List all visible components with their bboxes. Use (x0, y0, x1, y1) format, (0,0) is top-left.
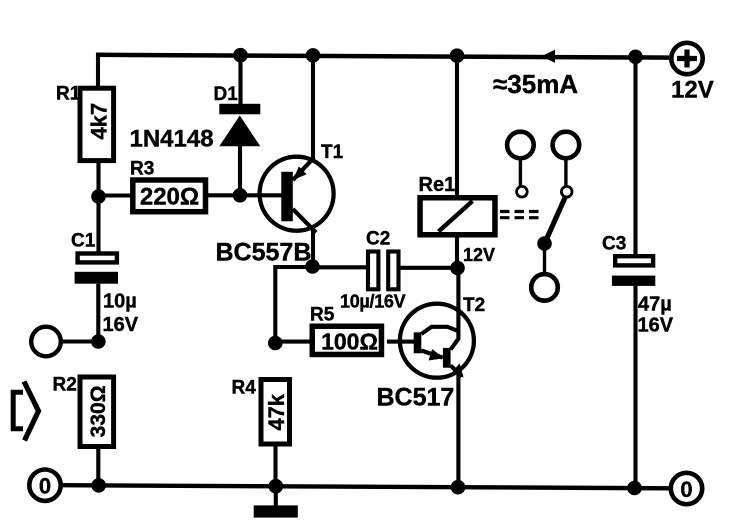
wire top supply rail (96, 55, 669, 58)
resistor R3 (133, 180, 206, 212)
junction bottom C3 (627, 481, 642, 496)
svg-text:0: 0 (680, 477, 692, 502)
svg-text:BC557B: BC557B (216, 239, 312, 267)
svg-text:16V: 16V (103, 314, 139, 336)
svg-text:12V: 12V (463, 245, 495, 265)
ground symbol stub (274, 486, 278, 506)
svg-text:Re1: Re1 (419, 174, 456, 196)
junction node T1 C2 branch (305, 259, 320, 274)
wire D1 to node (238, 146, 242, 195)
relay coil Re1 (420, 198, 495, 235)
svg-text:1N4148: 1N4148 (130, 126, 214, 153)
resistor R1 (80, 88, 114, 160)
junction bottom T2 (451, 480, 466, 495)
transistor T1 (247, 157, 334, 233)
svg-text:T2: T2 (463, 295, 485, 316)
svg-text:47k: 47k (264, 393, 289, 430)
input terminal circle (31, 327, 61, 357)
voltage source plus terminal 12V (671, 43, 702, 74)
svg-text:T1: T1 (321, 142, 344, 163)
junction bottom R4 (269, 479, 284, 494)
junction top rail C3 (628, 50, 643, 65)
junction node relay C2 T2 (450, 261, 465, 276)
junction top rail D1 (233, 48, 248, 63)
wire R2 bottom to rail (96, 449, 100, 485)
wire C3 bottom to rail (633, 286, 637, 488)
junction node R1 R3 C1 (91, 189, 106, 204)
svg-text:16V: 16V (638, 315, 674, 337)
wire node down left to R4 R5 node (275, 267, 312, 343)
junction node R4 R5 (268, 336, 283, 351)
wire R3 to diode node (206, 193, 241, 197)
wire node to R5 (275, 340, 312, 344)
wire relay branch top (455, 56, 459, 196)
wire C1 top (96, 197, 100, 252)
ground symbol bar (254, 505, 298, 517)
svg-text:≈35mA: ≈35mA (493, 69, 578, 99)
ground terminal left (29, 470, 60, 501)
svg-text:C1: C1 (71, 231, 96, 252)
svg-text:C3: C3 (602, 234, 626, 255)
svg-text:100Ω: 100Ω (321, 329, 378, 355)
wire node to C2 left plate (313, 265, 367, 269)
svg-text:R2: R2 (53, 375, 77, 396)
wire contact A stem (519, 161, 522, 187)
svg-text:R4: R4 (232, 378, 257, 399)
junction top rail T1 (306, 48, 321, 63)
wire T1 emitter to top rail (311, 55, 315, 162)
wire T1 collector down to node (311, 230, 315, 267)
svg-text:47µ: 47µ (638, 294, 672, 316)
wire C1 bottom (96, 284, 100, 342)
wire pivot to pole circle (543, 244, 546, 274)
contact B terminal small circle (561, 186, 572, 197)
svg-text:R1: R1 (56, 84, 81, 105)
svg-text:220Ω: 220Ω (140, 184, 199, 211)
wire relay bottom to node (455, 238, 459, 269)
svg-text:10µ/16V: 10µ/16V (340, 292, 406, 312)
switch pole C circle (531, 274, 558, 301)
wire T2 collector (456, 268, 460, 340)
ground terminal right (671, 473, 702, 504)
switch pivot dot (537, 236, 552, 251)
switch contact A circle (507, 132, 534, 159)
input arrow (13, 382, 38, 441)
switch contact B circle (553, 132, 580, 159)
svg-text:R5: R5 (310, 305, 335, 326)
wire T2 emitter down to rail (456, 372, 460, 487)
resistor R5 (312, 326, 381, 354)
transistor T2 (399, 304, 474, 378)
svg-text:C2: C2 (366, 229, 390, 250)
bottom ground rail (61, 485, 670, 488)
capacitor C1 (75, 254, 118, 284)
arrow current direction on top rail (542, 50, 556, 63)
wire R1 bottom to node (96, 163, 100, 197)
svg-text:0: 0 (39, 474, 51, 499)
diode D1 (219, 104, 260, 147)
junction top rail relay (450, 48, 465, 63)
wire contact B stem (564, 161, 567, 187)
svg-text:330Ω: 330Ω (87, 385, 110, 437)
switch lever (545, 197, 566, 244)
svg-text:4k7: 4k7 (86, 103, 111, 140)
svg-text:10µ: 10µ (103, 291, 137, 313)
resistor R4 (261, 380, 290, 445)
relay actuation dashed link (500, 212, 541, 218)
svg-text:12V: 12V (671, 77, 714, 104)
svg-text:BC517: BC517 (377, 384, 455, 412)
wire left rail top segment (96, 53, 100, 88)
wire R4 bottom to rail (273, 447, 277, 487)
capacitor C2 (368, 252, 399, 290)
svg-text:D1: D1 (214, 84, 239, 105)
junction node D1 R3 T1 base (233, 188, 248, 203)
wire C3 branch top (633, 57, 637, 255)
wire D1 top stub (238, 55, 242, 106)
contact A terminal small circle (517, 186, 528, 197)
wire input to node (61, 339, 98, 343)
resistor R2 (80, 377, 114, 447)
wire R5 to T2 base (387, 340, 400, 344)
junction node input R2 C1 (91, 334, 106, 349)
wire C2 right plate to node (401, 266, 458, 270)
capacitor C3 (612, 256, 655, 286)
junction bottom R2 (91, 478, 106, 493)
svg-text:R3: R3 (130, 159, 154, 180)
wire node to R3 (99, 193, 134, 197)
